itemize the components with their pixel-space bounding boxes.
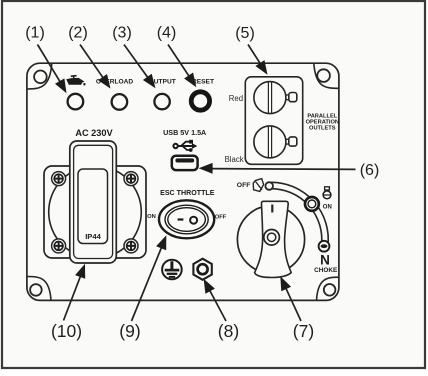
svg-text:OUTLETS: OUTLETS: [309, 125, 336, 131]
svg-text:Red: Red: [229, 94, 243, 103]
svg-text:N: N: [320, 253, 330, 268]
svg-text:CHOKE: CHOKE: [314, 267, 338, 274]
svg-text:ON: ON: [323, 205, 332, 211]
svg-text:AC 230V: AC 230V: [75, 128, 113, 138]
svg-text:(2): (2): [68, 25, 88, 42]
svg-text:(6): (6): [360, 162, 380, 179]
svg-text:(7): (7): [293, 321, 314, 341]
svg-text:(1): (1): [25, 25, 45, 42]
svg-text:Black: Black: [225, 155, 244, 164]
svg-text:ESC THROTTLE: ESC THROTTLE: [160, 189, 215, 197]
svg-text:(5): (5): [235, 25, 255, 42]
svg-text:ON: ON: [147, 214, 156, 220]
svg-text:USB 5V 1.5A: USB 5V 1.5A: [163, 128, 206, 137]
svg-text:OFF: OFF: [237, 182, 251, 189]
svg-text:OFF: OFF: [215, 215, 227, 221]
svg-text:(9): (9): [119, 321, 140, 341]
svg-text:(10): (10): [51, 321, 82, 341]
svg-text:(3): (3): [112, 25, 132, 42]
svg-text:IP44: IP44: [85, 232, 101, 241]
svg-text:(4): (4): [157, 25, 177, 42]
svg-text:(8): (8): [218, 321, 239, 341]
